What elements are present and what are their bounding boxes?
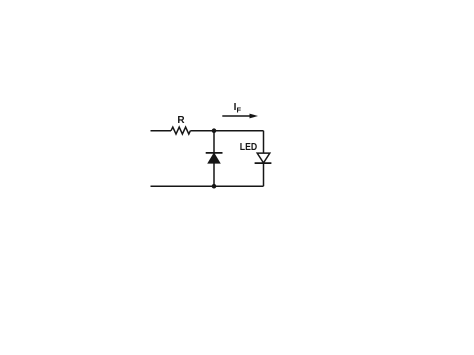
wire right vertical <box>263 131 265 187</box>
wire middle vertical <box>213 131 215 187</box>
node junction top <box>212 128 217 133</box>
label LED <box>240 142 257 153</box>
svg-text:F: F <box>237 106 242 115</box>
diode D1 (protection diode, cathode up) <box>206 153 223 163</box>
wire top-right segment <box>214 130 264 132</box>
node junction bottom <box>212 184 217 189</box>
svg-text:LED: LED <box>240 142 257 153</box>
svg-text:R: R <box>177 115 185 126</box>
LED D2 (anode up) <box>255 153 272 163</box>
label R <box>177 115 185 126</box>
wire top-left segment <box>151 130 172 132</box>
wire top-middle segment <box>190 130 214 132</box>
wire bottom segment <box>151 185 264 187</box>
current arrow IF <box>222 114 258 119</box>
resistor R <box>171 127 190 134</box>
label IF <box>234 102 242 114</box>
